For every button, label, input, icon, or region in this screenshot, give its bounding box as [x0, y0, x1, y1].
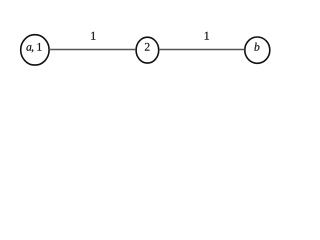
node 2 (middle circle) [136, 37, 159, 63]
wire: edge from node 2 to node b [159, 49, 245, 51]
node b label: glyph b [254, 43, 259, 51]
node 2 label: glyph 2 [145, 43, 150, 51]
edge label 1 (left edge) [91, 32, 95, 40]
node a,1 label: glyph a [26, 45, 31, 51]
wire: edge from node a,1 to node 2 [49, 49, 136, 51]
edge label 1 (right edge) [205, 32, 209, 40]
node b (right circle) [245, 37, 270, 63]
node a,1 label: comma [32, 49, 34, 52]
node a,1 label: glyph 1 [37, 43, 41, 51]
node a,1 (left ellipse) [21, 35, 49, 65]
